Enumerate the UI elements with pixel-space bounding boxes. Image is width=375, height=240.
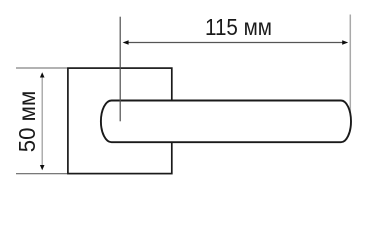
extension line bottom-left (plate bottom) (16, 173, 67, 175)
arrowhead left of 115mm (123, 40, 129, 44)
extension line left (handle axis) (119, 17, 121, 122)
square rosette plate (68, 68, 172, 174)
dimension line 50mm (41, 77, 43, 166)
arrowhead top of 50mm (40, 72, 45, 77)
svg-text:50 мм: 50 мм (14, 91, 40, 153)
dimension line 115mm (127, 42, 344, 44)
extension line right (gray, handle tip) (349, 15, 351, 117)
svg-text:115 мм: 115 мм (205, 14, 272, 40)
extension line top-left (plate top) (16, 67, 67, 69)
handle lever (101, 101, 351, 143)
arrowhead bottom of 50mm (40, 165, 45, 170)
arrowhead right of 115mm (342, 40, 348, 44)
